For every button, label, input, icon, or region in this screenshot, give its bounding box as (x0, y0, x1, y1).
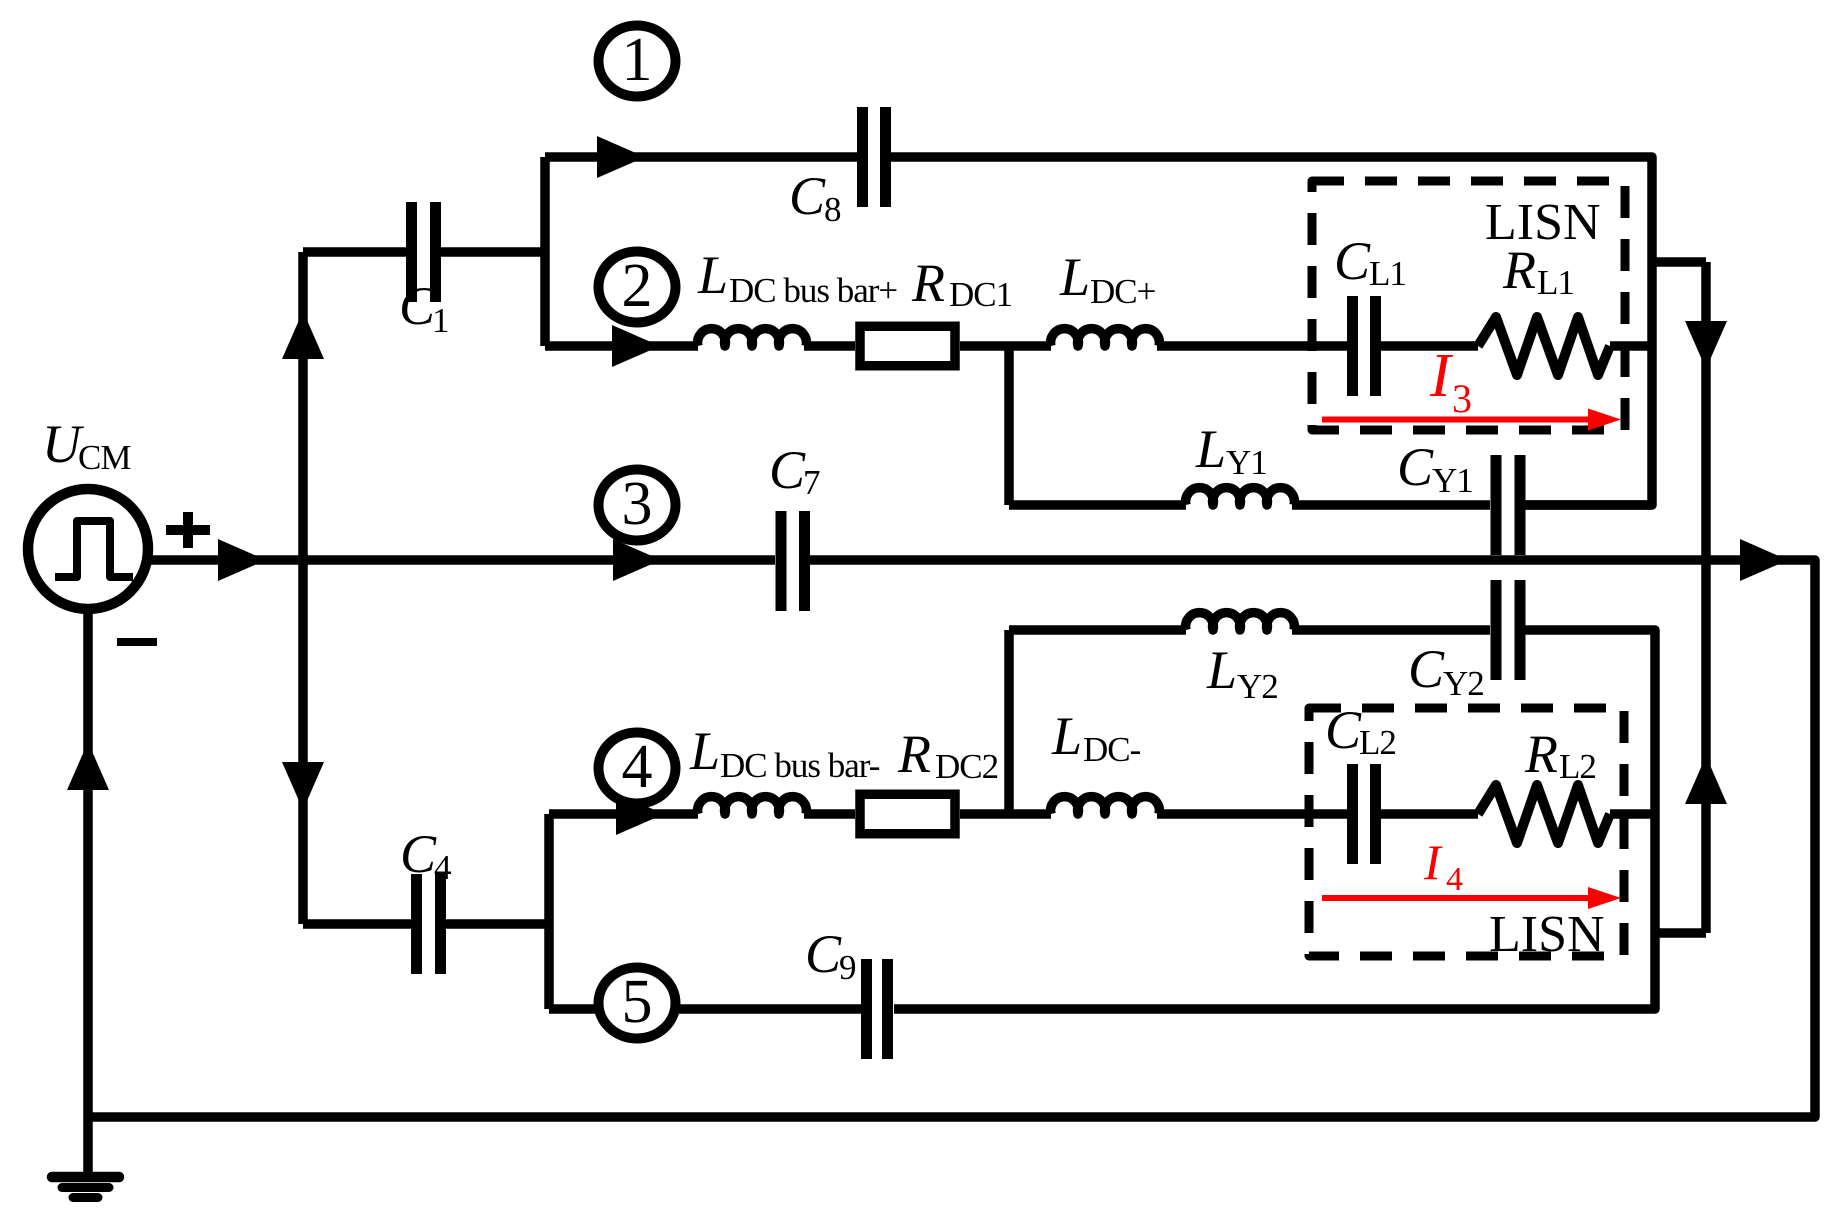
svg-text:LISN: LISN (1485, 194, 1601, 251)
svg-text:7: 7 (803, 463, 820, 502)
svg-text:C: C (1408, 639, 1445, 699)
arrow node3 left (218, 539, 266, 581)
wire ground vertical from source to ground (83, 609, 93, 1176)
arrow node2 (612, 325, 660, 367)
wire node4 segment c (960, 809, 1051, 819)
inductor L_DC+ (1051, 329, 1160, 346)
inductor L_Y1 (1186, 488, 1295, 505)
svg-text:Y1: Y1 (1432, 461, 1473, 500)
red current arrow I3 (1322, 417, 1590, 423)
wire upper junction vertical x=545 (540, 157, 550, 346)
svg-text:3: 3 (1452, 376, 1472, 421)
svg-text:CM: CM (78, 438, 131, 477)
wire L_Y2 segment a (1009, 625, 1186, 635)
capacitor C7 (781, 511, 805, 611)
capacitor C8 (863, 107, 886, 207)
wire mid junction vertical lower x=1009 (1004, 630, 1014, 814)
node circle 5 (599, 968, 676, 1039)
svg-text:C: C (805, 924, 842, 984)
LISN dashed box lower (1309, 708, 1624, 956)
wire node4 segment a (549, 809, 698, 819)
wire return vertical x=1706 (1701, 262, 1711, 933)
svg-text:4: 4 (434, 848, 451, 887)
capacitor C1 (412, 202, 436, 302)
wire node1 left of C8 (545, 152, 857, 162)
inductor L_DC- (1051, 797, 1160, 814)
wire C4 branch right (446, 919, 549, 929)
svg-text:R: R (1524, 724, 1558, 784)
svg-text:DC1: DC1 (949, 275, 1012, 314)
wire node2 segment d (1157, 341, 1347, 351)
svg-text:4: 4 (622, 733, 653, 801)
capacitor C_Y2 (1496, 580, 1520, 680)
wire mid junction vertical upper x=1009 (1004, 346, 1014, 505)
arrow return-line down (1685, 321, 1727, 369)
node circle 2 (599, 252, 676, 323)
svg-text:C: C (1334, 231, 1371, 291)
resistor R_DC2 (860, 794, 955, 834)
arrow node3 mid (613, 539, 661, 581)
svg-text:1: 1 (432, 301, 449, 340)
wire node3 right of C7, right edge down, bottom wire (88, 560, 1815, 1117)
svg-text:I: I (1429, 342, 1454, 410)
plus sign (166, 512, 210, 548)
svg-text:L: L (697, 245, 728, 305)
svg-text:L2: L2 (1559, 747, 1596, 786)
svg-text:Y2: Y2 (1237, 667, 1278, 706)
wire node4 segment d (1157, 809, 1347, 819)
svg-text:LISN: LISN (1489, 906, 1605, 963)
svg-text:DC bus bar+: DC bus bar+ (729, 271, 897, 310)
node circle 1 (599, 26, 676, 97)
svg-text:L: L (1051, 706, 1082, 766)
wire left riser x=303 (298, 252, 308, 924)
wire node3 main horizontal left of C7 (150, 555, 775, 565)
wire L_Y1 segment b (1292, 500, 1490, 510)
inductor L_Y2 (1186, 613, 1295, 630)
arrow ground-branch up (67, 742, 109, 790)
svg-text:L: L (1059, 247, 1090, 307)
svg-text:L1: L1 (1369, 254, 1406, 293)
wire node4 segment f (1610, 809, 1655, 819)
capacitor C4 (417, 874, 441, 974)
inductor L_DC bus bar+ (698, 329, 807, 346)
wire node2 segment a (545, 341, 698, 351)
svg-text:5: 5 (622, 968, 653, 1036)
wire node2 segment f (1610, 341, 1652, 351)
svg-text:Y2: Y2 (1443, 664, 1484, 703)
svg-text:4: 4 (1446, 861, 1463, 898)
arrow node4 (616, 793, 664, 835)
svg-text:C: C (1325, 700, 1362, 760)
LISN dashed box upper (1312, 181, 1625, 430)
wire C1 branch right (441, 247, 545, 257)
wire C_Y2 to box edge, lower box right edge, node5 right part (894, 630, 1655, 1009)
svg-text:C: C (789, 166, 826, 226)
resistor R_DC1 (860, 326, 955, 366)
svg-text:DC-: DC- (1083, 730, 1141, 769)
svg-text:R: R (911, 253, 945, 313)
wire node5 left of C9 (549, 1004, 861, 1014)
svg-text:L: L (689, 721, 720, 781)
svg-text:L: L (1206, 640, 1237, 700)
svg-text:R: R (897, 724, 931, 784)
wire node4 segment e (1381, 809, 1478, 819)
svg-text:DC bus bar-: DC bus bar- (720, 746, 880, 785)
svg-text:8: 8 (824, 190, 841, 229)
inductor L_DC bus bar- (698, 797, 807, 814)
node circle 4 (599, 733, 676, 804)
svg-text:C: C (400, 824, 437, 884)
arrow return-line up (1685, 756, 1727, 804)
svg-text:L2: L2 (1359, 723, 1396, 762)
capacitor C_L1 (1353, 296, 1376, 396)
wire node2 segment e (1381, 341, 1478, 351)
capacitor C_Y1 (1496, 455, 1520, 555)
wire L_Y2 segment b (1292, 625, 1490, 635)
minus sign (117, 638, 157, 646)
wire node2 segment b (804, 341, 855, 351)
voltage source U_CM circle (28, 489, 148, 609)
svg-text:9: 9 (839, 948, 856, 987)
arrow riser up (282, 311, 324, 359)
svg-text:1: 1 (622, 26, 653, 94)
wire stub upper to return line (1652, 257, 1706, 267)
arrow riser down (282, 762, 324, 810)
ground symbol (52, 1177, 119, 1198)
svg-text:C: C (769, 440, 806, 500)
wire node4 segment b (804, 809, 855, 819)
wire stub lower to return line (1655, 928, 1706, 938)
wire node1 right of C8 + upper box right edge (891, 157, 1652, 505)
svg-text:I: I (1423, 834, 1443, 890)
svg-text:L: L (1195, 419, 1226, 479)
svg-text:C: C (399, 276, 436, 336)
svg-text:C: C (1397, 437, 1434, 497)
resistor R_L1 (1478, 317, 1610, 375)
svg-text:L1: L1 (1537, 263, 1574, 302)
wire C4 branch left (303, 919, 411, 929)
svg-text:DC+: DC+ (1090, 272, 1156, 311)
capacitor C9 (867, 959, 888, 1059)
voltage source pulse glyph (55, 521, 133, 577)
svg-text:Y1: Y1 (1226, 443, 1267, 482)
capacitor C_L2 (1353, 764, 1376, 864)
resistor R_L2 (1478, 785, 1610, 843)
arrow node3 right (1740, 539, 1788, 581)
wire C1 branch left (303, 247, 406, 257)
arrow node1 (597, 136, 645, 178)
svg-text:3: 3 (622, 470, 653, 538)
wire C_Y1 to box edge (1525, 500, 1652, 510)
node circle 3 (599, 470, 676, 541)
svg-text:DC2: DC2 (935, 747, 998, 786)
wire lower junction vertical x=549 (544, 814, 554, 1009)
wire L_Y1 segment a (1009, 500, 1186, 510)
red current arrow I4 (1322, 895, 1590, 901)
svg-text:2: 2 (622, 252, 653, 320)
wire node2 segment c (960, 341, 1051, 351)
